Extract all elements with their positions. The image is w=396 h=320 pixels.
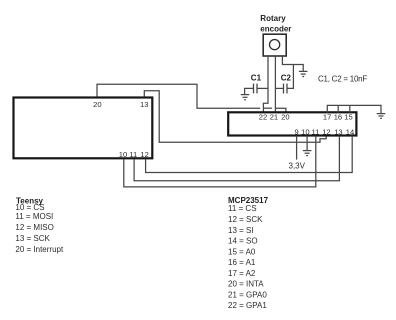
svg-text:11 = CS: 11 = CS (228, 204, 257, 213)
svg-text:13: 13 (334, 127, 342, 136)
svg-text:22: 22 (259, 113, 267, 122)
wire pin15 stub (349, 105, 351, 112)
wire SCK net: Teensy 13 to MCP 12 (144, 91, 326, 143)
wire C1 left plate to ground (245, 88, 254, 94)
svg-text:12 = SCK: 12 = SCK (228, 215, 263, 224)
legend MCP23517 (228, 196, 269, 310)
svg-text:13 = SI: 13 = SI (228, 226, 254, 235)
wire encoder pin A to MCP pin 22 (263, 56, 268, 112)
MCP23517 U2 body (228, 112, 356, 135)
svg-text:12: 12 (140, 150, 148, 159)
svg-text:15 = A0: 15 = A0 (228, 248, 256, 257)
svg-text:20: 20 (281, 113, 289, 122)
wire interrupt net segment into MCP pin 20 (276, 108, 286, 112)
rotary encoder label (260, 14, 291, 33)
svg-text:9: 9 (295, 127, 299, 136)
wire A0 A1 A2 bus to ground (327, 105, 381, 113)
ground (A0 A1 A2) (377, 114, 386, 119)
svg-text:20 = Interrupt: 20 = Interrupt (15, 245, 64, 254)
svg-text:14: 14 (346, 127, 354, 136)
wire C2 left plate to encoder pin B (275, 87, 283, 89)
svg-text:13 = SCK: 13 = SCK (15, 234, 50, 243)
wire pin16 stub (337, 105, 339, 112)
svg-text:21 = GPA0: 21 = GPA0 (228, 291, 267, 300)
wire MISO net: Teensy 12 to MCP 14 (146, 136, 353, 173)
wire interrupt net segment crossing encoder wires (264, 107, 272, 109)
rotary encoder SW1 body (263, 34, 286, 56)
wire C1 right plate to encoder pin A (257, 87, 268, 89)
wire C2 right plate to ground net (287, 65, 293, 89)
svg-text:12: 12 (322, 127, 330, 136)
svg-text:12 = MISO: 12 = MISO (15, 223, 53, 232)
svg-text:16: 16 (334, 113, 342, 122)
svg-text:13: 13 (140, 100, 148, 109)
wire interrupt net: Teensy 20 to MCP 20 (97, 84, 260, 108)
svg-text:Rotary: Rotary (260, 14, 286, 23)
svg-text:10 = CS: 10 = CS (15, 203, 44, 212)
svg-text:17: 17 (323, 113, 331, 122)
svg-text:C1, C2 = 10nF: C1, C2 = 10nF (318, 75, 367, 84)
svg-text:10: 10 (119, 150, 127, 159)
svg-text:11 = MOSI: 11 = MOSI (15, 212, 53, 221)
svg-text:14 = SO: 14 = SO (228, 237, 258, 246)
wire encoder pin B to MCP pin 21 (274, 56, 276, 112)
svg-text:20 = INTA: 20 = INTA (228, 280, 264, 289)
svg-text:21: 21 (270, 113, 278, 122)
ground (encoder common) (299, 71, 308, 76)
wire MOSI net: Teensy 11 to MCP 13 (134, 136, 339, 181)
svg-text:11: 11 (129, 150, 137, 159)
svg-text:encoder: encoder (260, 24, 291, 33)
wire pin 10 to ground (306, 136, 308, 151)
svg-text:C2: C2 (281, 74, 292, 83)
legend Teensy (15, 196, 64, 254)
svg-text:10: 10 (301, 127, 309, 136)
svg-text:3,3V: 3,3V (289, 161, 306, 170)
wire CS net: Teensy 10 to MCP 11 (124, 136, 316, 187)
ground (C1) (241, 95, 250, 100)
svg-text:17 = A2: 17 = A2 (228, 269, 256, 278)
wire pin 9 to 3.3V (296, 136, 298, 160)
svg-text:22 = GPA1: 22 = GPA1 (228, 301, 267, 310)
wire encoder common to ground (282, 56, 303, 71)
svg-text:15: 15 (344, 113, 352, 122)
svg-text:20: 20 (93, 100, 101, 109)
capacitor C2 (284, 84, 288, 94)
svg-text:16 = A1: 16 = A1 (228, 258, 256, 267)
ground (MCP VSS) (303, 151, 312, 156)
svg-text:C1: C1 (251, 74, 262, 83)
Teensy U1 body (14, 98, 153, 159)
capacitor C1 (254, 84, 258, 94)
svg-text:11: 11 (312, 127, 320, 136)
